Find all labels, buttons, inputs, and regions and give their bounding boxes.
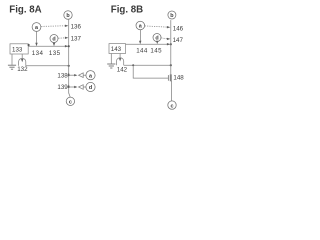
- wire a down to junction 144: [139, 30, 141, 44]
- label 146: [173, 26, 184, 33]
- wire d down to junction 135: [53, 43, 55, 47]
- svg-text:135: 135: [49, 50, 61, 57]
- svg-text:132: 132: [17, 66, 28, 73]
- wire a down to junction 134: [35, 31, 37, 46]
- svg-text:Fig. 8A: Fig. 8A: [9, 5, 41, 16]
- wire dashed a to bus tap 146: [145, 26, 171, 29]
- svg-text:d: d: [52, 37, 55, 43]
- label 148: [173, 75, 184, 82]
- wire bus horizontal from box 143 to vertical bus: [126, 43, 172, 45]
- svg-text:144: 144: [136, 48, 148, 55]
- wire long horizontal from fork to bus: [26, 65, 70, 67]
- label 132: [17, 66, 28, 73]
- svg-text:148: 148: [173, 75, 184, 82]
- block 133 (box): [10, 44, 28, 54]
- node 139 output junction: [68, 84, 87, 89]
- label 135: [49, 50, 61, 57]
- label 134: [32, 50, 44, 57]
- svg-text:Fig. 8B: Fig. 8B: [111, 4, 143, 15]
- svg-text:142: 142: [117, 66, 128, 73]
- title Fig. 8B: [111, 4, 143, 15]
- node a (circle a, fig 8B): [136, 21, 145, 30]
- label 142: [117, 66, 128, 73]
- label 145: [150, 48, 162, 55]
- ground (fig 8B): [107, 54, 115, 69]
- svg-text:147: 147: [173, 37, 184, 44]
- svg-text:146: 146: [173, 26, 184, 33]
- svg-text:c: c: [171, 103, 174, 109]
- svg-text:c: c: [69, 100, 72, 106]
- transistor 148: [168, 74, 171, 81]
- wire gate L-path to transistor: [133, 65, 168, 78]
- node 138 output junction: [68, 72, 87, 77]
- node c (circle c, bottom fig 8A): [66, 97, 74, 105]
- node b (circle b, top of bus): [64, 11, 72, 19]
- node d (circle, output of 139): [86, 82, 95, 91]
- wire dashed d to bus tap 147: [161, 38, 170, 40]
- wire vertical bus (fig 8A): [68, 19, 70, 93]
- node d (circle d, middle): [50, 35, 58, 43]
- wire bus horizontal from box 133 to vertical bus: [28, 44, 69, 48]
- wire vertical bus (fig 8B): [170, 20, 172, 74]
- wire dashed d to bus tap 137: [58, 37, 68, 39]
- svg-text:138: 138: [57, 72, 68, 79]
- label 139: [57, 84, 68, 91]
- node d (circle d, fig 8B): [153, 34, 161, 42]
- svg-text:d: d: [89, 85, 92, 91]
- wire dashed a to bus tap 136: [41, 25, 68, 27]
- title Fig. 8A: [9, 5, 41, 16]
- tuning fork 132: [19, 54, 26, 66]
- svg-text:143: 143: [111, 46, 122, 53]
- label 136: [71, 23, 82, 30]
- ground (fig 8A): [8, 54, 16, 69]
- node b (circle b, fig 8B): [168, 11, 176, 19]
- svg-text:133: 133: [12, 47, 23, 54]
- label 144: [136, 48, 148, 55]
- wire transistor source down to node c: [171, 81, 173, 101]
- svg-text:139: 139: [57, 84, 68, 91]
- svg-text:137: 137: [71, 35, 82, 42]
- node a (circle a, top left): [32, 23, 41, 32]
- wire bus to node c: [69, 93, 71, 97]
- tuning fork 142: [117, 54, 124, 66]
- label 138: [57, 72, 68, 79]
- wire long horizontal from fork to bus (fig 8B): [124, 64, 172, 66]
- svg-text:145: 145: [150, 48, 162, 55]
- node a (circle, output of 138): [86, 71, 95, 80]
- wire d down to junction 145: [156, 41, 158, 44]
- label 137: [71, 35, 82, 42]
- block 143 (box): [109, 44, 126, 54]
- svg-text:136: 136: [71, 23, 82, 30]
- svg-text:134: 134: [32, 50, 44, 57]
- label 147: [173, 37, 184, 44]
- node c (circle c, bottom fig 8B): [168, 101, 176, 109]
